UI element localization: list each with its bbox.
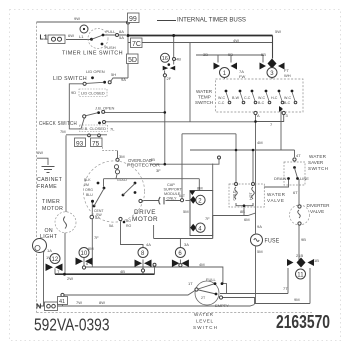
svg-text:FUSE: FUSE bbox=[265, 239, 280, 245]
svg-text:93: 93 bbox=[76, 140, 84, 147]
svg-text:HOT: HOT bbox=[249, 192, 253, 200]
svg-text:8W: 8W bbox=[99, 300, 105, 305]
svg-text:5A: 5A bbox=[109, 224, 114, 228]
svg-text:INTERNAL TIMER BUSS: INTERNAL TIMER BUSS bbox=[177, 17, 246, 24]
svg-text:75: 75 bbox=[92, 140, 100, 147]
svg-text:VALVE: VALVE bbox=[310, 209, 324, 214]
svg-text:5M: 5M bbox=[183, 209, 189, 214]
svg-text:5H: 5H bbox=[111, 72, 116, 77]
svg-text:TEMP: TEMP bbox=[198, 95, 211, 100]
svg-text:GOLD: GOLD bbox=[117, 178, 127, 182]
svg-text:BLK: BLK bbox=[84, 178, 91, 182]
svg-text:COLD: COLD bbox=[233, 190, 237, 200]
svg-text:7M: 7M bbox=[60, 129, 66, 134]
svg-text:9W: 9W bbox=[74, 16, 80, 21]
svg-text:W-C: W-C bbox=[284, 96, 292, 100]
svg-text:LEVEL: LEVEL bbox=[196, 319, 213, 324]
svg-text:TIMER: TIMER bbox=[42, 199, 60, 205]
svg-text:2W: 2W bbox=[67, 276, 73, 281]
svg-text:592VA-0393: 592VA-0393 bbox=[34, 315, 110, 335]
svg-text:6M: 6M bbox=[88, 246, 94, 251]
svg-text:12: 12 bbox=[52, 257, 59, 263]
svg-text:2M: 2M bbox=[84, 183, 89, 187]
svg-text:J.B. OPEN: J.B. OPEN bbox=[95, 106, 114, 111]
svg-text:8M: 8M bbox=[197, 186, 203, 191]
svg-text:7F: 7F bbox=[94, 235, 99, 240]
svg-text:W-C: W-C bbox=[258, 96, 266, 100]
svg-text:A: A bbox=[257, 113, 260, 118]
svg-text:4B: 4B bbox=[120, 269, 125, 274]
svg-text:H-C: H-C bbox=[271, 96, 278, 100]
svg-text:B-W: B-W bbox=[232, 96, 240, 100]
svg-text:6T: 6T bbox=[293, 190, 298, 195]
svg-text:7L: 7L bbox=[110, 127, 115, 132]
svg-text:SWITCH: SWITCH bbox=[195, 100, 213, 105]
svg-text:2F: 2F bbox=[167, 76, 172, 81]
svg-text:FW: FW bbox=[239, 74, 245, 79]
svg-text:11: 11 bbox=[297, 273, 304, 279]
svg-text:4M: 4M bbox=[257, 140, 263, 145]
svg-text:4A: 4A bbox=[146, 242, 151, 247]
svg-text:WATER: WATER bbox=[194, 312, 214, 317]
svg-text:10: 10 bbox=[81, 251, 88, 257]
svg-text:WATER: WATER bbox=[196, 89, 213, 94]
svg-text:9D: 9D bbox=[71, 90, 76, 95]
svg-text:LID CLOSED: LID CLOSED bbox=[81, 91, 105, 96]
svg-text:LID SWITCH: LID SWITCH bbox=[53, 76, 87, 82]
svg-text:MODULE: MODULE bbox=[164, 192, 181, 196]
svg-text:FRAME: FRAME bbox=[37, 184, 57, 190]
svg-text:CAP: CAP bbox=[167, 183, 175, 187]
svg-text:L1: L1 bbox=[40, 35, 48, 42]
svg-text:DRIVE: DRIVE bbox=[134, 209, 156, 216]
svg-text:FULL: FULL bbox=[206, 277, 217, 282]
svg-text:5W: 5W bbox=[275, 29, 281, 34]
svg-text:3F: 3F bbox=[156, 168, 161, 173]
svg-text:7W: 7W bbox=[76, 300, 82, 305]
svg-text:ORG: ORG bbox=[85, 188, 93, 192]
svg-text:6M: 6M bbox=[244, 217, 250, 222]
svg-text:7C: 7C bbox=[132, 41, 141, 48]
svg-text:W-C: W-C bbox=[218, 96, 226, 100]
svg-text:MOTOR: MOTOR bbox=[42, 206, 63, 212]
svg-text:4T: 4T bbox=[296, 153, 301, 158]
svg-text:L1: L1 bbox=[79, 34, 84, 39]
svg-text:4M: 4M bbox=[199, 262, 205, 267]
svg-text:5D: 5D bbox=[128, 57, 137, 64]
svg-text:J.B. CLOSED: J.B. CLOSED bbox=[82, 126, 107, 131]
svg-text:8A: 8A bbox=[119, 29, 124, 34]
svg-text:41: 41 bbox=[59, 299, 65, 305]
svg-text:PULL: PULL bbox=[106, 29, 117, 34]
svg-text:5A: 5A bbox=[119, 35, 124, 40]
svg-text:C-C: C-C bbox=[244, 96, 251, 100]
svg-text:4W: 4W bbox=[233, 38, 239, 43]
svg-text:99: 99 bbox=[129, 16, 137, 23]
svg-text:LID OPEN: LID OPEN bbox=[86, 69, 105, 74]
svg-text:B-C: B-C bbox=[258, 101, 265, 105]
svg-text:5B: 5B bbox=[228, 52, 233, 57]
svg-text:WATER: WATER bbox=[267, 192, 286, 197]
svg-text:CABINET: CABINET bbox=[37, 177, 63, 183]
svg-text:4B: 4B bbox=[150, 157, 155, 162]
svg-text:7F: 7F bbox=[205, 216, 210, 221]
svg-text:1B: 1B bbox=[314, 258, 319, 263]
svg-text:SAVER: SAVER bbox=[308, 160, 324, 165]
svg-text:CHECK SWITCH: CHECK SWITCH bbox=[39, 121, 77, 127]
svg-text:2163570: 2163570 bbox=[276, 312, 330, 332]
svg-text:9A: 9A bbox=[257, 224, 262, 229]
svg-text:WH: WH bbox=[284, 73, 291, 78]
svg-text:9B: 9B bbox=[301, 237, 306, 242]
svg-text:21B: 21B bbox=[296, 253, 303, 258]
svg-text:BLU: BLU bbox=[86, 193, 93, 197]
svg-text:SWITCH: SWITCH bbox=[308, 166, 328, 171]
svg-text:3B: 3B bbox=[203, 52, 208, 57]
svg-text:BO: BO bbox=[126, 219, 131, 223]
svg-text:WATER: WATER bbox=[309, 154, 327, 159]
svg-text:7T: 7T bbox=[283, 286, 288, 291]
svg-text:VALVE: VALVE bbox=[267, 198, 284, 203]
svg-text:C-C: C-C bbox=[218, 101, 225, 105]
svg-text:EMPTY: EMPTY bbox=[215, 303, 229, 308]
svg-text:8B: 8B bbox=[240, 209, 245, 214]
svg-text:DRAIN: DRAIN bbox=[274, 176, 287, 181]
svg-text:SWITCH: SWITCH bbox=[193, 325, 217, 330]
svg-text:5M: 5M bbox=[257, 249, 263, 254]
svg-text:3A: 3A bbox=[184, 242, 189, 247]
svg-text:MOTOR: MOTOR bbox=[132, 216, 158, 223]
svg-text:5B: 5B bbox=[261, 52, 266, 57]
svg-text:6W: 6W bbox=[68, 33, 74, 38]
svg-text:ONLY: ONLY bbox=[167, 197, 178, 201]
svg-text:9A: 9A bbox=[121, 77, 126, 82]
svg-text:DIVERTER: DIVERTER bbox=[307, 203, 331, 208]
svg-text:RO: RO bbox=[126, 224, 132, 228]
svg-text:PUSH: PUSH bbox=[105, 45, 116, 50]
svg-text:N: N bbox=[36, 302, 41, 311]
svg-text:3M: 3M bbox=[119, 154, 125, 159]
svg-text:16: 16 bbox=[162, 56, 168, 62]
svg-text:4B: 4B bbox=[176, 57, 181, 62]
svg-text:1T: 1T bbox=[188, 281, 193, 286]
svg-text:1A: 1A bbox=[47, 248, 52, 253]
svg-text:6W: 6W bbox=[37, 150, 43, 155]
svg-text:LINE: LINE bbox=[300, 176, 309, 181]
svg-text:9M: 9M bbox=[294, 297, 300, 302]
svg-text:SW: SW bbox=[96, 213, 102, 217]
svg-text:B-C: B-C bbox=[284, 101, 291, 105]
svg-text:TIMER LINE SWITCH: TIMER LINE SWITCH bbox=[62, 51, 123, 57]
svg-text:SUPPORT: SUPPORT bbox=[164, 188, 183, 192]
